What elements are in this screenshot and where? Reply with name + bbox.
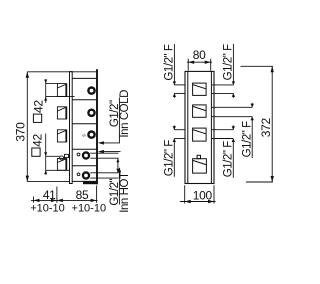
svg-text:42: 42 [30, 134, 44, 147]
svg-text:41: 41 [43, 188, 56, 202]
svg-text:G1/2" F: G1/2" F [164, 44, 176, 81]
svg-text:G1/2" F: G1/2" F [222, 44, 234, 81]
svg-text:80: 80 [193, 48, 206, 62]
svg-text:100: 100 [193, 188, 213, 202]
svg-text:42: 42 [32, 100, 46, 113]
svg-text:85: 85 [76, 188, 89, 202]
svg-text:Inn COLD: Inn COLD [119, 90, 131, 138]
svg-text:370: 370 [13, 122, 27, 142]
svg-text:+10-10: +10-10 [30, 203, 65, 215]
svg-text:372: 372 [259, 118, 273, 138]
svg-text:G1/2" F: G1/2" F [164, 140, 176, 177]
svg-text:+10-10: +10-10 [72, 203, 107, 215]
svg-text:Inn HOT: Inn HOT [119, 172, 131, 213]
